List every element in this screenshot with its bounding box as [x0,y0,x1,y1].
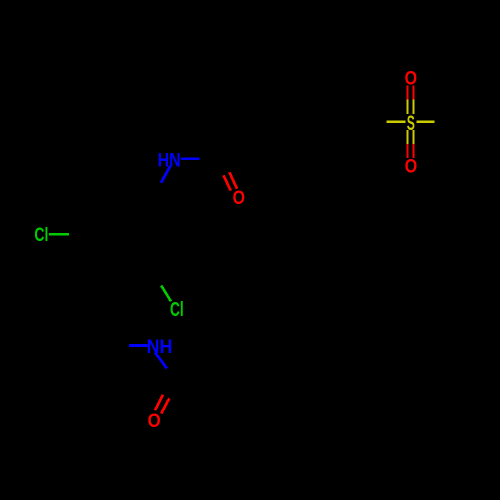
svg-text:S: S [407,110,415,135]
svg-text:NH: NH [147,335,173,357]
bond: S=O bottom right line red half [412,144,414,158]
bond: S-CH3 left half (yellow) [386,120,405,123]
bond: S=O bottom right line yellow half [412,130,414,144]
bond: amide1 N-C half (blue) [181,157,200,160]
svg-text:HN: HN [158,149,181,171]
svg-text:Cl: Cl [34,224,48,246]
atom label Obot: O [405,155,418,177]
bond: amide2 C=O outer line (red) [155,395,163,411]
svg-text:O: O [233,187,245,209]
bond: S=O top left line yellow half [406,100,408,114]
svg-text:Cl: Cl [170,297,184,320]
bond: amide1 C=O outer line (red) [229,172,237,189]
bond: amide1 N-ring half (blue) [161,166,170,183]
svg-text:O: O [405,155,418,177]
bond: amide2 N-CH2 half (blue) [129,344,147,347]
svg-text:O: O [405,67,418,89]
atom label Cl2: Cl [170,297,184,320]
bond: S-CH3 right half (yellow) [416,120,434,123]
bond: amide2 N-C half (blue) [155,352,167,368]
atom label NH: NH [147,335,173,357]
svg-text:O: O [148,410,161,431]
bond: S=O top left line red half [406,86,408,100]
atom label S: S [407,110,415,135]
bond: S=O top right line yellow half [412,100,414,114]
atom label Otop: O [405,67,418,89]
bond: S=O top right line red half [412,86,414,100]
atom label Cl1: Cl [34,224,48,246]
bond: amide1 C=O inner line (red) [224,175,231,190]
atom label O2: O [148,410,161,431]
atom label O1: O [233,187,245,209]
bond: Cl1-ring half (green) [49,233,69,236]
bond: S=O bottom left line yellow half [406,130,408,144]
bond: S=O bottom left line red half [406,144,408,158]
bond: amide2 C=O inner line (red) [161,398,169,413]
bond: Cl2-ring half (green) [161,286,171,302]
atom label HN: HN [158,149,181,171]
